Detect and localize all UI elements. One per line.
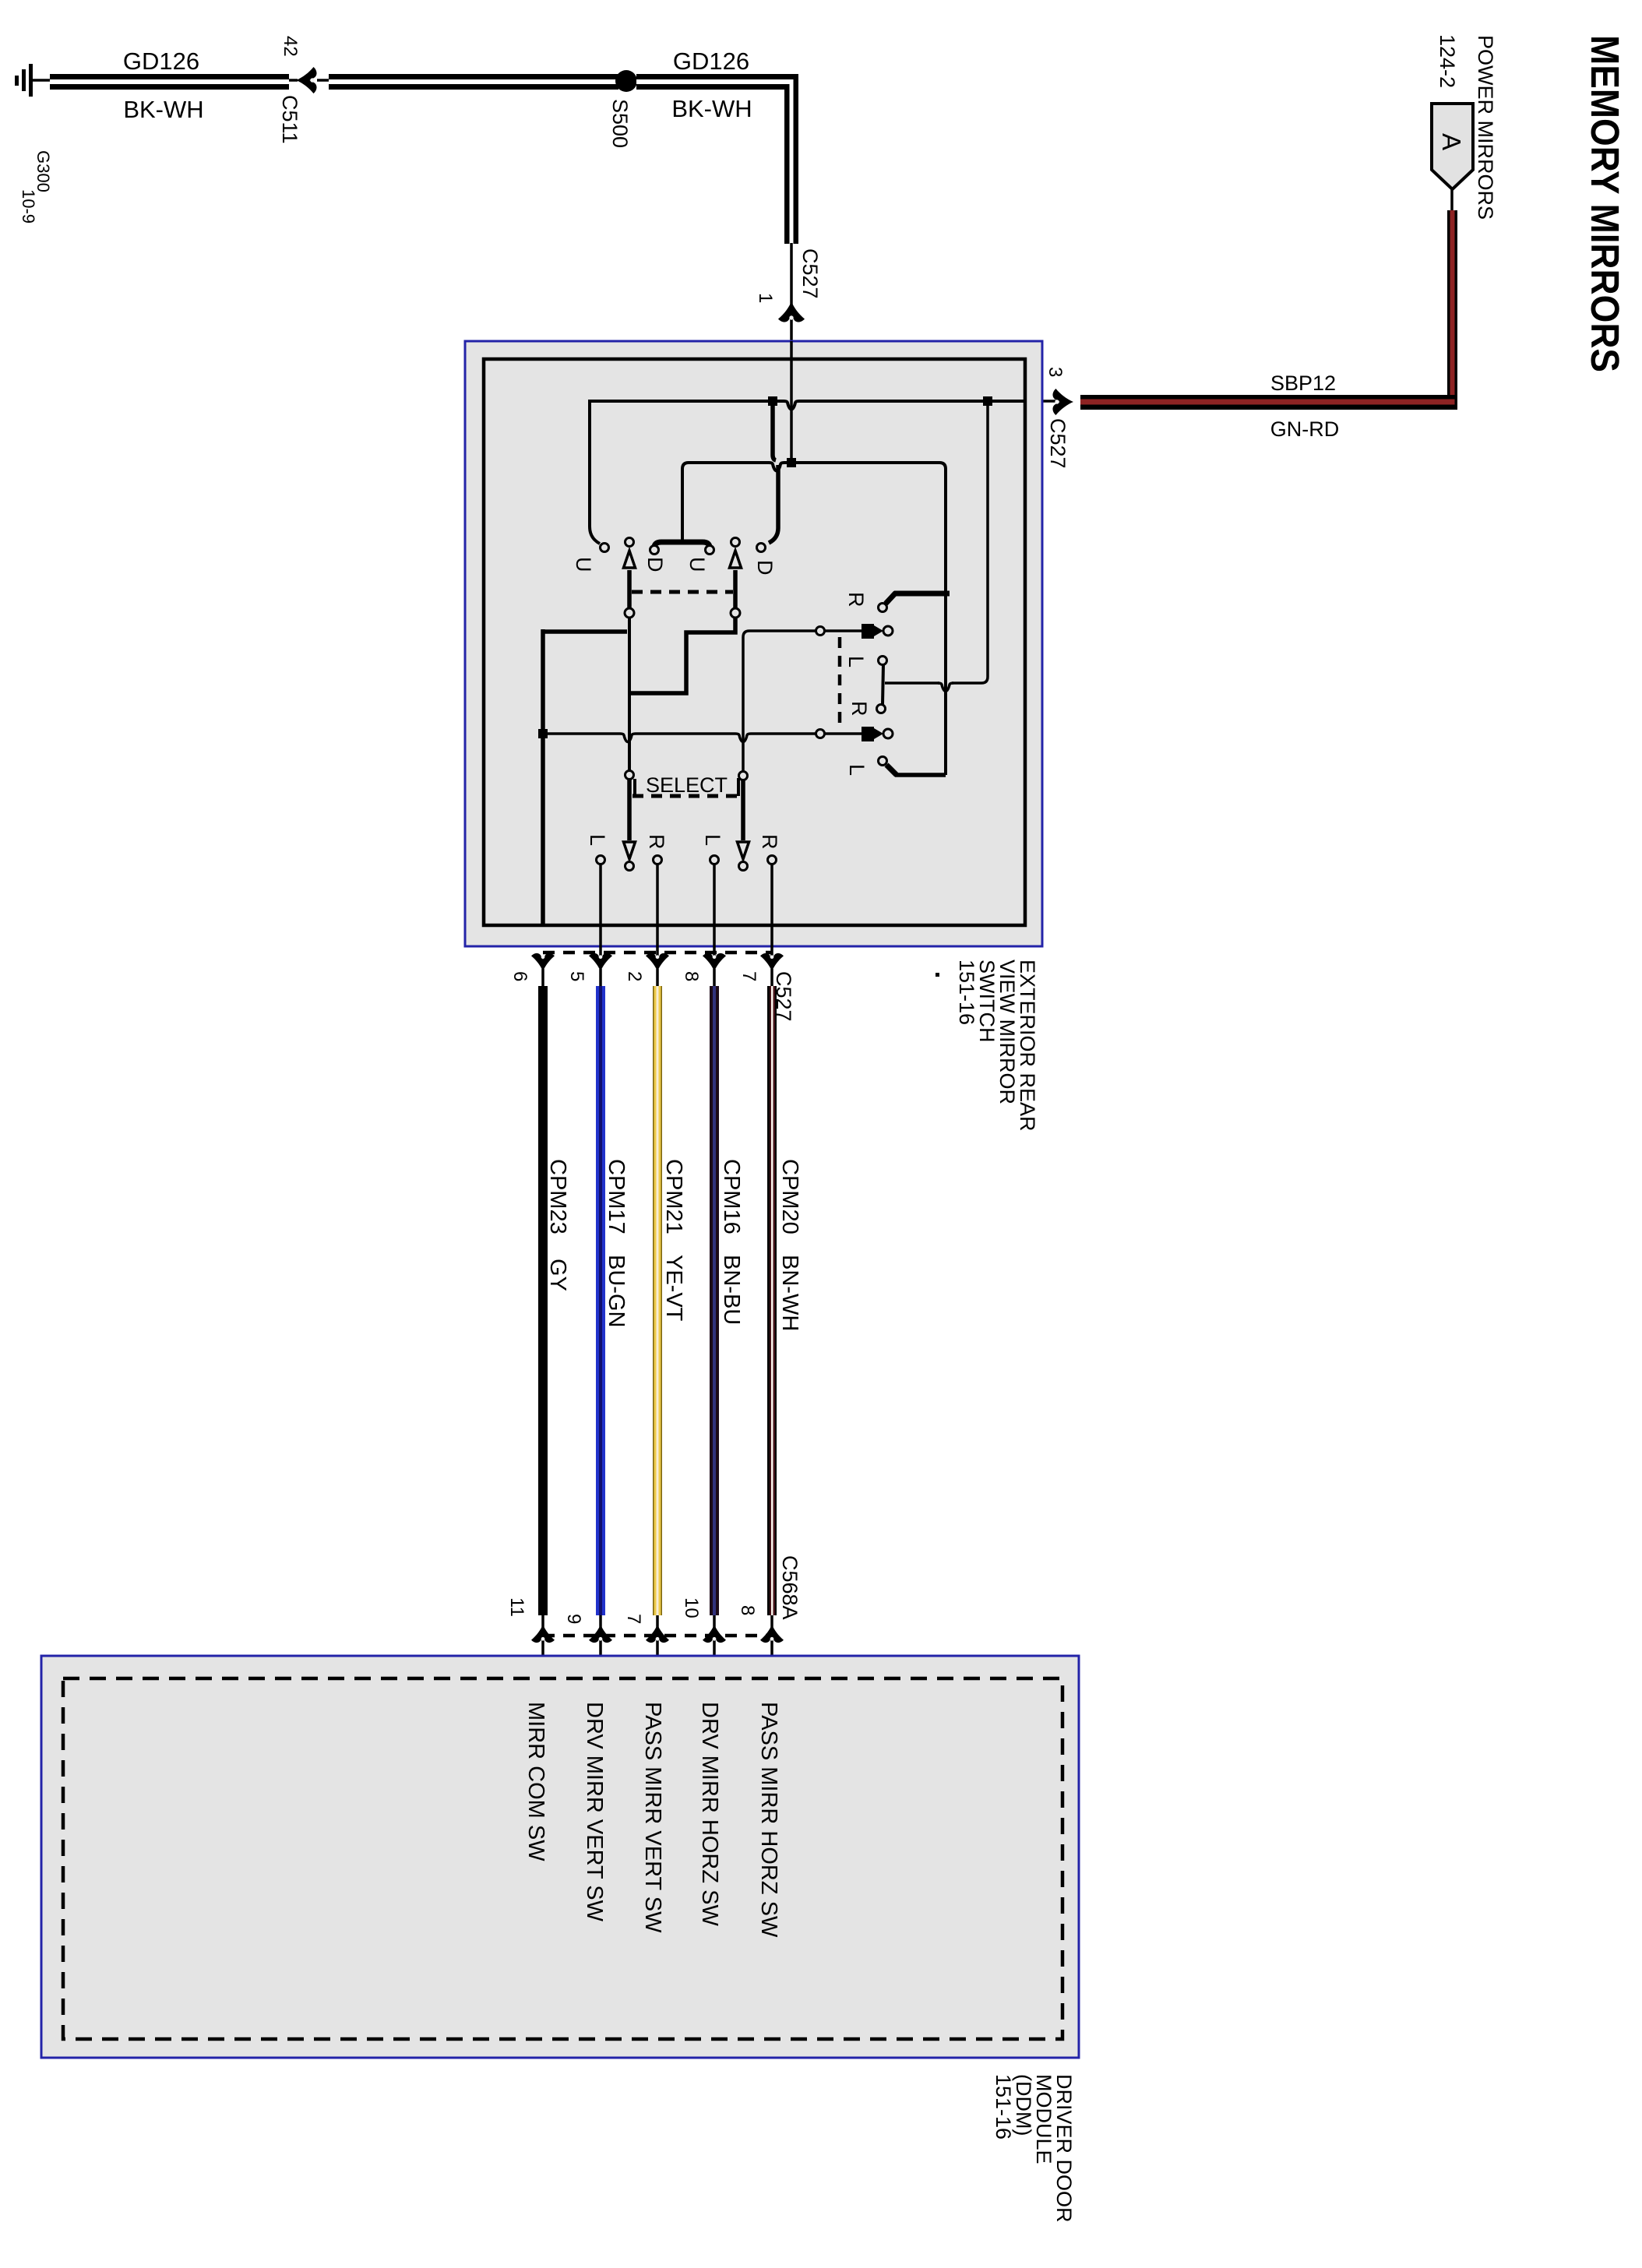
svg-text:11: 11 [506,1597,527,1617]
svg-text:D: D [643,557,667,572]
wire: right branch from bus down to selector [952,401,988,683]
DDM inner dashed border [63,1678,1062,2039]
pin 1 arrow [778,301,805,322]
svg-text:U: U [572,557,595,572]
label EXTERIOR REAR VIEW MIRROR SWITCH 151-16 [936,960,1039,1132]
svg-text:PASS MIRR VERT SW: PASS MIRR VERT SW [640,1702,665,1933]
wire: right vertical x=1214 down to L arm [939,463,946,775]
svg-text:PASS MIRR HORZ SW: PASS MIRR HORZ SW [756,1702,781,1938]
selector N.O. contact (block and circle) upper [862,624,893,639]
wire: upper selector feed line y=810 [743,631,749,772]
svg-text:3: 3 [1045,367,1066,377]
selector middle contact circles [877,657,887,713]
DDM pin 7 arrow [646,1625,669,1643]
svg-text:9: 9 [563,1614,584,1624]
mechanical link dashed between U/D arms [632,590,733,594]
svg-text:8: 8 [737,1605,758,1615]
pin leads to wires [543,969,772,988]
svg-text:R: R [847,701,871,717]
svg-text:D: D [753,560,777,576]
contact circle on y=942 [816,730,825,738]
svg-text:GD126: GD126 [123,48,199,75]
contact D circle [757,544,766,552]
staple link D to U [650,542,714,555]
connector C568A dashed line [543,1634,772,1638]
svg-text:BU-GN: BU-GN [604,1255,629,1327]
svg-text:6: 6 [509,971,530,981]
wire CPM20 BN-WH (dark brown w/ white) [767,986,777,1615]
wire hop at (1214,877) [938,683,953,692]
wire CPM17 BU-GN (blue) [596,986,605,1615]
svg-text:42: 42 [280,36,301,57]
wire: feed from bus to contact D (with jog at y=594) [773,401,776,460]
wire: into selector middle contacts [885,681,939,685]
wire: pin 6 leg x=697 [541,629,545,927]
svg-text:YE-VT: YE-VT [661,1255,686,1322]
svg-text:CPM23: CPM23 [545,1159,570,1234]
svg-text:GN-RD: GN-RD [1270,417,1340,441]
svg-text:R: R [758,834,781,850]
svg-text:CPM16: CPM16 [719,1159,744,1234]
svg-text:C527: C527 [798,248,822,299]
svg-text:C568A: C568A [778,1555,802,1620]
pin 2 arrow [646,953,669,971]
pin 6 arrow [531,953,555,971]
svg-text:10: 10 [681,1597,702,1618]
svg-text:7: 7 [738,971,759,981]
svg-text:7: 7 [623,1614,644,1624]
svg-text:GY: GY [545,1259,570,1291]
svg-text:DRV MIRR VERT SW: DRV MIRR VERT SW [582,1702,607,1922]
svg-text:MEMORY MIRRORS: MEMORY MIRRORS [1583,35,1627,372]
svg-text:A: A [1437,133,1466,150]
wire CPM21 YE-VT (yellow) [653,986,662,1615]
DDM pin 8 arrow [760,1625,784,1643]
svg-text:10-9: 10-9 [19,189,38,224]
svg-text:2: 2 [624,971,645,981]
wire: second bus y=594 [682,463,770,542]
bottom contact L (pin8) [710,856,719,960]
wire SBP12 GN-RD horizontal [1080,395,1457,410]
svg-text:C511: C511 [278,95,301,144]
svg-text:L: L [844,656,868,667]
svg-text:5: 5 [566,971,587,981]
wire hop at (954,942) [735,734,751,742]
wire: pin1 wire into box [790,341,793,460]
svg-text:SBP12: SBP12 [1270,372,1336,395]
wire GD126 BK-WH segment 1 [50,74,289,90]
SELECT label with dashed box [632,773,738,797]
wire CPM16 BN-BU (dark brown w/ blue) [710,986,719,1615]
svg-text:151-16: 151-16 [955,960,978,1025]
mechanical link dashed between selector contacts [838,637,842,727]
junction dot on bus at x=1268 [983,396,992,406]
wire: pin3 bus line y=515 [590,400,784,403]
bottom contact R (pin2) [654,856,662,960]
ground label G300 10-9 [19,150,53,224]
label DRIVER DOOR MODULE (DDM) 151-16 [992,2074,1076,2223]
switch arm L (lower selector) [879,757,946,776]
ground G300 [15,64,51,97]
svg-text:U: U [685,557,709,572]
svg-text:151-16: 151-16 [992,2074,1015,2139]
switch arm U/D left (driver vertical) [624,538,636,780]
wire: thick branch y=811 to pin 6 leg [541,629,627,634]
pin 8 arrow [703,953,726,971]
svg-text:R: R [645,834,668,850]
lead from pentagon [1450,189,1453,212]
selector N.O. contact (block and circle) lower [862,727,893,741]
contact U circle [601,544,609,552]
switch arm R (pass/drv select upper) [879,593,950,612]
exterior rear view mirror switch outer box [465,341,1042,946]
svg-text:C527: C527 [1046,418,1069,469]
svg-text:CPM21: CPM21 [661,1159,686,1234]
connector A pentagon (POWER MIRRORS 124-2) [1432,104,1473,189]
pin 3 arrow [1053,389,1074,415]
svg-text:L: L [586,834,609,846]
wire GD126 BK-WH segment 3 with corner down [636,74,798,244]
driver door module box [41,1656,1079,2058]
wire: Z link from right arm to left arm column [629,615,735,693]
junction dot at (697,942) [538,729,548,738]
svg-text:BK-WH: BK-WH [123,96,203,123]
wire: feed to contact U, from bus down [590,400,600,544]
junction dot at (1016,594) [787,458,796,467]
wire: long bus y=942 [543,732,620,735]
svg-text:BK-WH: BK-WH [671,95,752,122]
wire thin lead to pin 1 [790,243,793,341]
connector C527 dashed line [543,951,772,955]
svg-text:L: L [845,764,869,776]
svg-text:CPM17: CPM17 [604,1159,629,1234]
svg-text:L: L [701,834,724,846]
svg-text:POWER MIRRORS: POWER MIRRORS [1474,35,1497,220]
svg-text:G300: G300 [33,150,53,192]
wire CPM23 GY (black) [538,986,548,1615]
svg-text:BN-WH: BN-WH [777,1255,802,1331]
switch inner border [484,359,1025,925]
SELECT left arm [624,780,636,871]
svg-text:BN-BU: BN-BU [719,1255,744,1325]
pin 3 lead line [1025,400,1055,403]
leads from wires to DDM pins [543,1615,772,1676]
wire SBP12 GN-RD vertical [1447,210,1457,409]
svg-text:S500: S500 [608,99,632,148]
splice S500 [615,70,637,92]
wire hop at (997,594) [769,463,784,471]
DDM pin 10 arrow [703,1625,726,1643]
pin 7 arrow [760,953,784,971]
wire hop at (806,942) [620,734,636,742]
DDM pin 11 arrow [531,1625,555,1643]
connector C511 arrow [289,67,330,93]
SELECT right arm pivot circle [739,772,748,780]
pin 5 arrow [589,953,612,971]
svg-text:CPM20: CPM20 [777,1159,802,1234]
bottom contact R (pin7) [768,856,777,960]
svg-text:SELECT: SELECT [646,773,728,797]
svg-text:124-2: 124-2 [1436,34,1459,88]
svg-text:DRV MIRR HORZ SW: DRV MIRR HORZ SW [697,1702,722,1926]
svg-text:1: 1 [755,293,776,303]
svg-text:8: 8 [681,971,702,981]
bottom contact L (pin5) [597,856,605,960]
switch arm U/D right (passenger vertical) [730,538,742,618]
SELECT right arm [738,780,749,871]
contact circle on y=810 [816,627,825,636]
wire hop over pin1 wire at (1016,515) [784,401,799,410]
junction dot on bus at x=992 [768,396,777,406]
DDM pin 9 arrow [589,1625,612,1643]
svg-text:MIRR COM SW: MIRR COM SW [523,1702,548,1861]
svg-text:GD126: GD126 [673,48,749,75]
svg-text:R: R [844,592,868,607]
wire GD126 BK-WH segment 2 [329,74,618,90]
